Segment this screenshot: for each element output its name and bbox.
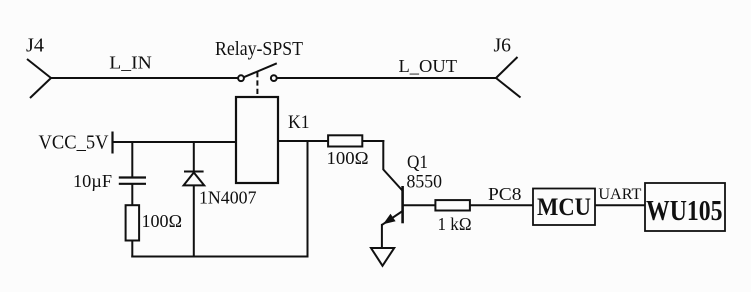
svg-text:Q1: Q1 [407,153,428,173]
wire VCC rail [113,141,237,143]
svg-text:8550: 8550 [407,172,443,192]
relay switch arm [244,63,277,77]
transistor Q1 emitter lead with arrow [382,211,403,225]
wire junction down to bottom rail [307,141,309,258]
svg-text:1N4007: 1N4007 [199,188,257,208]
resistor R1 100ohm vertical [126,205,140,240]
wire resistor to bottom rail [131,241,133,258]
wire MCU to WU105 [595,204,645,206]
svg-text:MCU: MCU [537,194,591,221]
svg-text:VCC_5V: VCC_5V [39,132,110,154]
svg-text:10µF: 10µF [73,171,112,191]
svg-text:PC8: PC8 [488,184,522,204]
relay coil K1 box [236,97,278,183]
capacitor C1 10uF [119,178,146,184]
svg-text:K1: K1 [288,112,310,133]
wire resistor R2 to collector [362,140,384,142]
wire collector vertical [382,140,384,170]
relay actuation dashed link [256,72,258,97]
wire R3 to MCU [470,204,533,206]
svg-text:J6: J6 [494,35,512,57]
transistor Q1 base lead [403,204,436,206]
resistor R2 100ohm horizontal [328,135,362,146]
diode D1 1N4007 [184,172,205,186]
svg-text:L_OUT: L_OUT [399,56,458,76]
connector J6 [496,57,521,98]
svg-text:100Ω: 100Ω [142,211,183,231]
wire bottom rail [131,256,308,258]
VCC terminal bar [111,132,113,154]
WU105 box [645,183,725,231]
svg-text:WU105: WU105 [646,196,723,227]
svg-text:Relay-SPST: Relay-SPST [215,38,303,60]
relay switch left contact [238,75,244,81]
svg-text:J4: J4 [26,35,44,57]
resistor R3 1k [435,200,470,210]
wire L_IN: J4 to relay left contact [50,77,239,79]
wire L_OUT: relay right contact to J6 [277,77,496,79]
svg-text:1 kΩ: 1 kΩ [438,214,472,234]
MCU box [533,189,595,226]
ground [371,248,394,266]
relay switch right contact [271,75,277,81]
transistor Q1 base bar [401,186,404,223]
wire capacitor to resistor [131,184,133,206]
svg-text:UART: UART [598,186,642,203]
wire diode branch bottom [193,185,195,256]
wire diode branch top [193,142,195,172]
wire relay coil to resistor R2 [278,140,329,142]
svg-text:L_IN: L_IN [109,52,152,72]
transistor Q1 collector lead [383,170,403,192]
connector J4 [27,59,51,98]
wire emitter to ground [381,224,383,248]
wire capacitor branch top [131,142,133,178]
svg-text:100Ω: 100Ω [327,148,369,168]
